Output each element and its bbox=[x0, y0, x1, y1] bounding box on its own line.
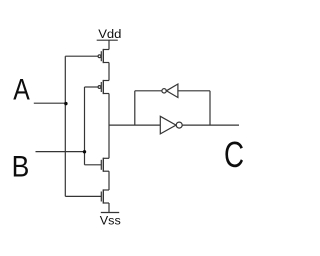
output label C bbox=[224, 134, 244, 175]
power label Vss bbox=[100, 214, 121, 228]
transistor M3 (NMOS, gate B) bbox=[101, 158, 109, 172]
svg-text:A: A bbox=[13, 72, 30, 106]
svg-text:Vss: Vss bbox=[100, 214, 121, 228]
wire net B vertical bbox=[84, 87, 86, 165]
Vdd rail bbox=[97, 39, 118, 41]
wire M4 source to Vss bbox=[108, 203, 110, 213]
wire feedback right vertical bbox=[209, 91, 211, 125]
wire M1 source to M2 drain bbox=[108, 63, 110, 81]
wire M2 gate bbox=[85, 86, 99, 88]
wire output to latch bbox=[109, 124, 160, 126]
Vss rail bbox=[101, 212, 119, 214]
wire U1 output to C bbox=[182, 124, 239, 126]
node A junction bbox=[64, 102, 67, 105]
svg-text:B: B bbox=[12, 150, 30, 183]
transistor M1 (PMOS, gate A) bbox=[98, 49, 109, 63]
transistor M2 (PMOS, gate B) bbox=[98, 80, 109, 94]
wire input B bbox=[36, 151, 85, 153]
input label B bbox=[12, 150, 30, 183]
wire feedback top right segment bbox=[178, 90, 210, 92]
wire U2 output segment bbox=[135, 90, 162, 92]
svg-text:C: C bbox=[224, 134, 244, 175]
wire M3 gate bbox=[85, 164, 102, 166]
power label Vdd bbox=[98, 28, 121, 41]
wire M1 gate bbox=[65, 55, 98, 57]
inverter U1 (forward) bbox=[160, 116, 182, 134]
transistor M4 (NMOS, gate A) bbox=[101, 189, 109, 203]
wire feedback left vertical bbox=[134, 91, 136, 125]
wire M3 source to M4 drain bbox=[108, 171, 110, 190]
inverter U2 (feedback, pointing left) bbox=[162, 84, 178, 98]
wire M4 gate bbox=[65, 195, 101, 197]
wire net A vertical bbox=[64, 56, 66, 196]
wire Vdd to M1 drain bbox=[108, 40, 110, 49]
svg-text:Vdd: Vdd bbox=[98, 28, 121, 41]
wire input A bbox=[34, 102, 66, 104]
node B junction bbox=[83, 150, 86, 153]
wire output node vertical (M2 source to M3 drain) bbox=[108, 94, 110, 159]
input label A bbox=[13, 72, 30, 106]
